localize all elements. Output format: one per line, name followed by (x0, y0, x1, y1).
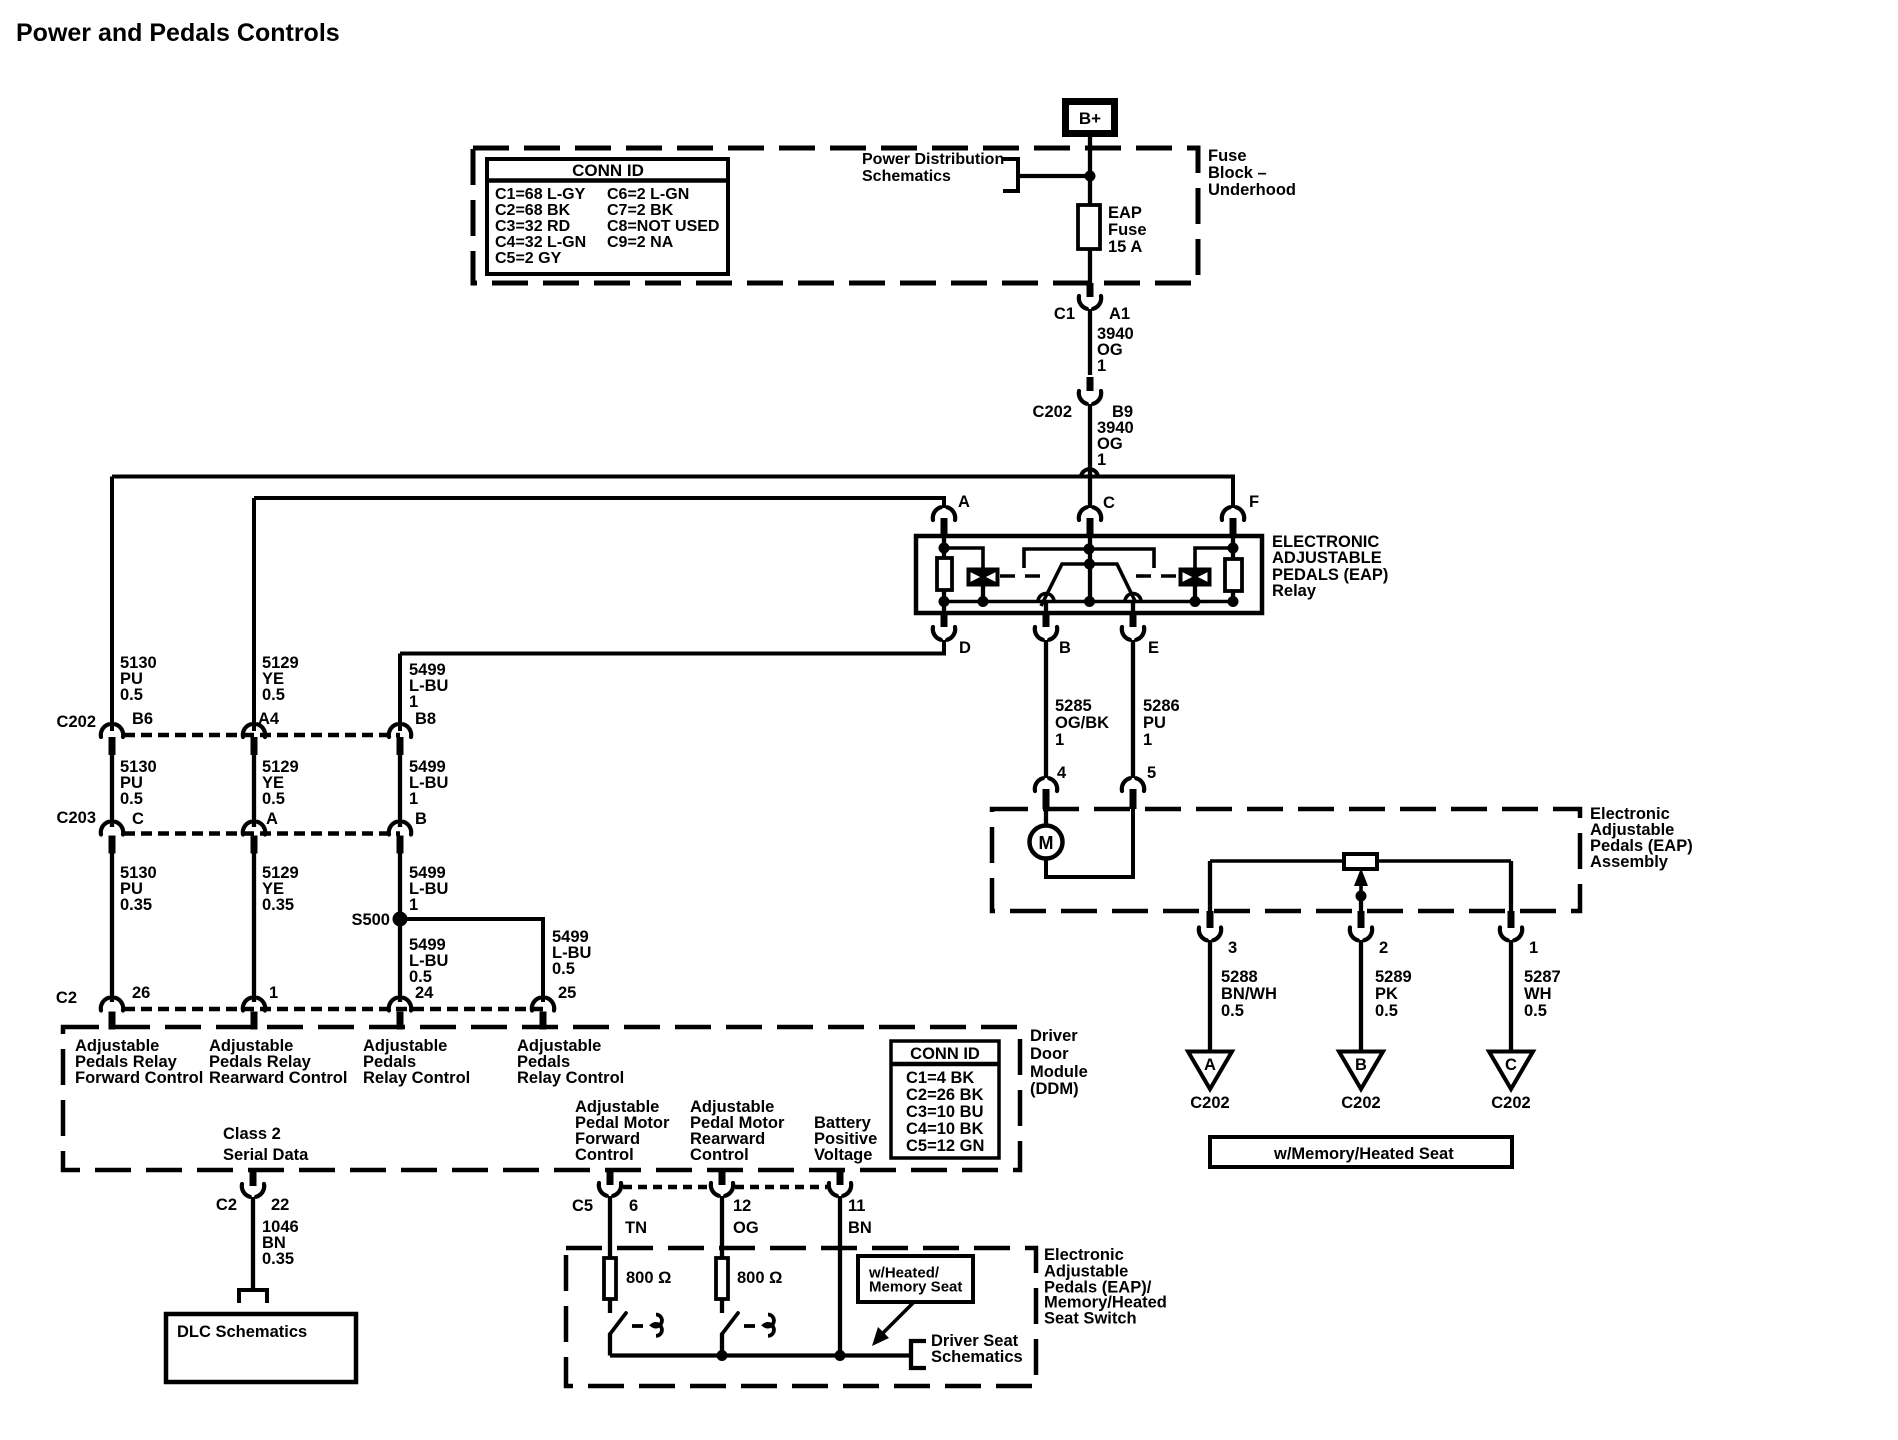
wire left coil to bottom rail (981, 586, 985, 601)
wire pin 6 to resistor (608, 1196, 612, 1259)
svg-text:12: 12 (733, 1197, 751, 1215)
svg-text:5499L-BU1: 5499L-BU1 (409, 864, 448, 914)
w/Memory/Heated Seat box (1210, 1137, 1512, 1167)
svg-text:Relay: Relay (1272, 582, 1317, 600)
wire resistor to switch (rwd) (720, 1299, 724, 1313)
connector C2 pin 25 (532, 998, 540, 1011)
svg-text:B6: B6 (132, 710, 153, 728)
svg-text:22: 22 (271, 1196, 289, 1214)
svg-text:C202: C202 (1341, 1094, 1380, 1112)
wire 5129 YE lower (252, 851, 256, 1002)
wire switch to bus (rwd) (720, 1333, 724, 1356)
svg-text:C: C (1103, 494, 1115, 512)
relay common bar (staple) (1024, 549, 1154, 568)
arrow w/heated to bus (880, 1302, 914, 1336)
switch contact forward (652, 1315, 662, 1336)
svg-text:Voltage: Voltage (814, 1146, 872, 1164)
connector relay pin C (1079, 507, 1087, 520)
node armature top (1084, 559, 1095, 570)
resistor relay left (937, 558, 952, 590)
svg-text:DLC Schematics: DLC Schematics (177, 1323, 307, 1341)
svg-text:CONN ID: CONN ID (910, 1045, 980, 1063)
node bus battery (835, 1350, 846, 1361)
svg-text:Relay Control: Relay Control (363, 1069, 470, 1087)
svg-text:B+: B+ (1079, 109, 1101, 128)
switch contact rearward (764, 1315, 774, 1336)
svg-text:5286PU1: 5286PU1 (1143, 697, 1180, 749)
svg-text:C1=68 L-GY: C1=68 L-GY (495, 186, 586, 203)
svg-text:w/Memory/Heated Seat: w/Memory/Heated Seat (1273, 1145, 1454, 1163)
wire right coil to bottom rail (1193, 586, 1197, 601)
wire 5287 WH 0.5 (1509, 940, 1513, 1052)
svg-text:C202: C202 (1491, 1094, 1530, 1112)
node A-coil junction (939, 543, 950, 554)
relay bottom rail (944, 600, 1233, 604)
svg-text:B: B (1355, 1056, 1367, 1074)
svg-text:C4=10 BK: C4=10 BK (906, 1120, 984, 1138)
svg-text:A: A (266, 810, 278, 828)
svg-text:C8=NOT USED: C8=NOT USED (607, 218, 719, 235)
wire 5499 L-BU vertical upper (398, 654, 402, 732)
svg-text:1046BN0.35: 1046BN0.35 (262, 1218, 299, 1268)
EAP relay box (916, 536, 1262, 613)
switch link dash rearward (744, 1324, 755, 1328)
wire pin B drop (1044, 601, 1048, 613)
wire 1046 BN 0.35 (251, 1197, 255, 1288)
svg-text:5499L-BU1: 5499L-BU1 (409, 661, 448, 711)
connector assembly pin 5 (1122, 778, 1130, 791)
svg-text:Block –: Block – (1208, 164, 1267, 182)
wire A node to left coil (944, 548, 983, 568)
svg-text:3940OG1: 3940OG1 (1097, 325, 1134, 375)
svg-text:(DDM): (DDM) (1030, 1080, 1079, 1098)
svg-text:E: E (1148, 639, 1159, 657)
driver door module dashed box (63, 1027, 1020, 1170)
wire motor to pin 5 (1046, 807, 1133, 877)
wire 5129 YE vertical upper (252, 498, 256, 731)
wire pin D drop (942, 601, 946, 613)
wire 5499 L-BU lower (398, 851, 402, 1002)
wire 5129 YE mid (252, 753, 256, 827)
battery positive terminal B+ (1066, 102, 1115, 134)
svg-text:C202: C202 (57, 713, 96, 731)
svg-text:C5=2 GY: C5=2 GY (495, 250, 562, 267)
svg-text:C2: C2 (56, 989, 77, 1007)
svg-text:C202: C202 (1033, 403, 1072, 421)
connector C5 dotted line (623, 1185, 709, 1189)
connector C202 pin B8 (389, 724, 397, 737)
connector C1 pin A1 (1087, 283, 1094, 297)
svg-text:Driver: Driver (1030, 1027, 1078, 1045)
svg-text:Schematics: Schematics (931, 1348, 1023, 1366)
wire 3940 OG 1 (C1 to C202) (1088, 309, 1092, 375)
node armature bottom (1084, 596, 1095, 607)
relay coil right K2 (1179, 568, 1212, 587)
svg-text:Power Distribution: Power Distribution (862, 151, 1004, 168)
node right coil bottom (1190, 596, 1201, 607)
wire fuse to C1 (1088, 249, 1092, 284)
wiper arrow (1359, 880, 1363, 897)
wire pin C through armature (1088, 536, 1092, 601)
wire wiper leg (1359, 896, 1363, 913)
CONN ID table (fuse block) (487, 159, 728, 274)
wire pin A into relay (942, 536, 946, 558)
svg-text:Door: Door (1030, 1045, 1069, 1063)
svg-text:11: 11 (848, 1197, 865, 1215)
svg-text:S500: S500 (351, 911, 390, 929)
svg-text:D: D (959, 639, 971, 657)
node right resistor bottom (1228, 596, 1239, 607)
wire left resistor to bottom rail (942, 590, 946, 601)
EAP switch dashed box (566, 1248, 1036, 1386)
switch blade forward (610, 1313, 626, 1334)
wire S500 branch to pin 25 (400, 919, 543, 1002)
svg-text:800 Ω: 800 Ω (626, 1269, 671, 1287)
wire right resistor to bottom rail (1231, 591, 1235, 601)
position sensor track line (1210, 859, 1511, 863)
connector assembly pin 2 (1358, 911, 1365, 928)
splice S500 (393, 912, 408, 927)
connector assembly pin 4 (1035, 778, 1043, 791)
svg-text:5285OG/BK1: 5285OG/BK1 (1055, 697, 1109, 749)
svg-text:5130PU0.5: 5130PU0.5 (120, 758, 157, 808)
node C common (1084, 544, 1095, 555)
connector C202 pin B9 (1087, 377, 1094, 391)
svg-text:Assembly: Assembly (1590, 853, 1669, 871)
wire 3940 OG 1 (C202 to relay C) (1088, 404, 1092, 508)
svg-text:M: M (1039, 833, 1054, 853)
svg-text:CONN ID: CONN ID (572, 161, 644, 180)
svg-text:3940OG1: 3940OG1 (1097, 419, 1134, 469)
svg-text:Power and Pedals Controls: Power and Pedals Controls (16, 19, 340, 47)
wire pin F into relay (1231, 536, 1235, 559)
svg-text:A: A (958, 493, 970, 511)
wire switch to bus (fwd) (608, 1333, 612, 1356)
connector C2 pin 22 (250, 1171, 257, 1186)
connector C2 dashed line (124, 1007, 543, 1011)
svg-text:A1: A1 (1109, 305, 1130, 323)
wire power distribution to B+ feed (1018, 174, 1090, 178)
wire feed run to relay F (hops over C) (112, 477, 1233, 509)
svg-text:Serial Data: Serial Data (223, 1146, 309, 1164)
DLC Schematics box (166, 1314, 356, 1382)
svg-text:15 A: 15 A (1108, 238, 1142, 256)
svg-text:B: B (415, 810, 427, 828)
svg-text:Fuse: Fuse (1108, 221, 1147, 239)
svg-text:C2: C2 (216, 1196, 237, 1214)
off-page bracket to DLC (239, 1290, 267, 1303)
resistor relay right (1225, 559, 1242, 591)
position sensor element (1344, 854, 1377, 869)
pivot arc pin E (1125, 594, 1141, 602)
svg-text:Module: Module (1030, 1063, 1088, 1081)
svg-text:C6=2 L-GN: C6=2 L-GN (607, 186, 689, 203)
wire pin 11 to bus (838, 1196, 842, 1356)
connector relay pin F (1222, 507, 1230, 520)
node bus rearward (717, 1350, 728, 1361)
svg-text:ADJUSTABLE: ADJUSTABLE (1272, 549, 1382, 567)
svg-text:Relay Control: Relay Control (517, 1069, 624, 1087)
connector C5 pin 11 (837, 1170, 844, 1185)
svg-text:3: 3 (1228, 939, 1237, 957)
svg-text:C3=10 BU: C3=10 BU (906, 1103, 984, 1121)
svg-text:Control: Control (690, 1146, 749, 1164)
svg-text:5287WH0.5: 5287WH0.5 (1524, 968, 1561, 1020)
svg-text:4: 4 (1057, 764, 1067, 782)
connector C202 pin A4 (243, 724, 251, 737)
connector C2 pin 1 (243, 998, 251, 1011)
svg-text:C2=26 BK: C2=26 BK (906, 1086, 984, 1104)
svg-text:B: B (1059, 639, 1071, 657)
wire 5285 OG/BK 1 (1044, 640, 1048, 778)
svg-text:1: 1 (1529, 939, 1538, 957)
connector relay pin B (1043, 611, 1050, 627)
connector assembly pin 3 (1207, 911, 1214, 928)
svg-text:C7=2 BK: C7=2 BK (607, 202, 674, 219)
svg-text:C5: C5 (572, 1197, 593, 1215)
wire 5288 BN/WH 0.5 (1208, 940, 1212, 1052)
svg-text:5130PU0.5: 5130PU0.5 (120, 654, 157, 704)
svg-text:C2=68 BK: C2=68 BK (495, 202, 571, 219)
svg-text:2: 2 (1379, 939, 1388, 957)
svg-text:Class 2: Class 2 (223, 1125, 281, 1143)
svg-text:Memory Seat: Memory Seat (869, 1279, 962, 1296)
svg-text:Rearward Control: Rearward Control (209, 1069, 347, 1087)
connector relay pin E (1130, 611, 1137, 627)
svg-text:5129YE0.35: 5129YE0.35 (262, 864, 299, 914)
svg-text:Control: Control (575, 1146, 634, 1164)
svg-text:OG: OG (733, 1219, 759, 1237)
svg-text:BN: BN (848, 1219, 872, 1237)
svg-text:B8: B8 (415, 710, 436, 728)
fuse EAP 15A (1078, 205, 1100, 249)
node left coil bottom (978, 596, 989, 607)
svg-text:5499L-BU0.5: 5499L-BU0.5 (409, 936, 448, 986)
connector C203 pin C (101, 822, 109, 835)
pivot arc pin B (1038, 594, 1054, 602)
CONN ID table (DDM) (891, 1041, 999, 1158)
connector assembly pin 1 (1508, 911, 1515, 928)
svg-text:5499L-BU0.5: 5499L-BU0.5 (552, 928, 591, 978)
switch blade rearward (722, 1313, 738, 1334)
svg-text:C203: C203 (57, 809, 96, 827)
dashed actuator link right (1136, 574, 1178, 578)
wire 5289 PK 0.5 (1359, 940, 1363, 1052)
svg-text:Forward Control: Forward Control (75, 1069, 203, 1087)
svg-text:C1=4 BK: C1=4 BK (906, 1069, 974, 1087)
wire B+ to fuse block (1088, 137, 1092, 150)
svg-text:Seat Switch: Seat Switch (1044, 1310, 1137, 1328)
svg-text:TN: TN (625, 1219, 647, 1237)
svg-text:C: C (132, 810, 144, 828)
node junction B+ feed (1085, 171, 1096, 182)
svg-text:A: A (1204, 1056, 1216, 1074)
wire pin 4 to motor (1044, 807, 1048, 826)
svg-text:Schematics: Schematics (862, 168, 951, 185)
svg-text:A4: A4 (258, 710, 280, 728)
node left resistor bottom (939, 596, 950, 607)
switch link dash forward (632, 1324, 643, 1328)
off-page bracket power distribution (1003, 159, 1018, 191)
svg-text:5288BN/WH0.5: 5288BN/WH0.5 (1221, 968, 1277, 1020)
wire sensor left leg (1208, 861, 1212, 913)
wire relay D to 5499 run (400, 640, 944, 654)
connector C203 pin B (389, 822, 397, 835)
wire sensor right leg (1509, 861, 1513, 913)
svg-text:800 Ω: 800 Ω (737, 1269, 782, 1287)
wire 5499 L-BU mid (398, 753, 402, 827)
dashed actuator link left (1000, 574, 1042, 578)
connector relay pin A (933, 507, 941, 520)
EAP assembly dashed box (992, 809, 1580, 911)
connector C203 dashed line (124, 831, 400, 835)
svg-text:5499L-BU1: 5499L-BU1 (409, 758, 448, 808)
svg-text:C3=32 RD: C3=32 RD (495, 218, 570, 235)
connector C202 dashed line (124, 733, 400, 737)
wire pin 12 to resistor (720, 1196, 724, 1259)
svg-text:5129YE0.5: 5129YE0.5 (262, 654, 299, 704)
connector relay pin D (941, 611, 948, 627)
resistor 800 ohm forward (604, 1258, 616, 1299)
off-page triangle A (1188, 1052, 1232, 1090)
svg-text:C9=2 NA: C9=2 NA (607, 234, 674, 251)
node F junction (1228, 543, 1239, 554)
svg-text:5: 5 (1147, 764, 1156, 782)
svg-text:5130PU0.35: 5130PU0.35 (120, 864, 157, 914)
svg-text:C5=12 GN: C5=12 GN (906, 1137, 984, 1155)
wire 5130 PU vertical upper (110, 477, 114, 732)
fuse block underhood dashed box (473, 148, 1198, 283)
svg-text:C4=32 L-GN: C4=32 L-GN (495, 234, 586, 251)
svg-text:F: F (1249, 493, 1259, 511)
wire 5130 PU lower (110, 851, 114, 1002)
connector C2 pin 24 (389, 998, 397, 1011)
wire 5286 PU 1 (1131, 640, 1135, 778)
svg-text:26: 26 (132, 984, 150, 1002)
resistor 800 ohm rearward (716, 1258, 728, 1299)
wire resistor to switch (fwd) (608, 1299, 612, 1313)
svg-text:C: C (1505, 1056, 1517, 1074)
svg-text:Fuse: Fuse (1208, 147, 1247, 165)
armature contact trapezoid (1041, 564, 1136, 606)
svg-text:5289PK0.5: 5289PK0.5 (1375, 968, 1412, 1020)
connector C203 pin A (243, 822, 251, 835)
off-page bracket driver seat (911, 1341, 926, 1368)
node wiper (1356, 891, 1367, 902)
off-page triangle B (1339, 1052, 1383, 1090)
wire F node to right coil (1195, 548, 1233, 568)
svg-text:C202: C202 (1190, 1094, 1229, 1112)
svg-text:24: 24 (415, 984, 434, 1002)
relay coil left K1 (967, 568, 1000, 587)
connector C2 pin 26 (101, 998, 109, 1011)
svg-text:EAP: EAP (1108, 204, 1142, 222)
switch common bus (610, 1353, 911, 1357)
wire 5130 PU mid (110, 753, 114, 827)
wire B+ feed to fuse (1088, 150, 1092, 205)
svg-text:Electronic: Electronic (1044, 1246, 1124, 1264)
off-page triangle C (1489, 1052, 1533, 1090)
svg-text:C1: C1 (1054, 305, 1075, 323)
motor M (1030, 826, 1063, 859)
svg-text:1: 1 (269, 984, 278, 1002)
connector C5 pin 6 (607, 1170, 614, 1185)
wire pin E drop (1131, 601, 1135, 613)
connector C5 pin 12 (719, 1170, 726, 1185)
wire feed run to relay A (254, 498, 944, 508)
svg-text:5129YE0.5: 5129YE0.5 (262, 758, 299, 808)
w/Heated/Memory Seat box (858, 1256, 973, 1302)
svg-text:Underhood: Underhood (1208, 181, 1296, 199)
connector C202 pin B6 (101, 724, 109, 737)
svg-text:25: 25 (558, 984, 576, 1002)
svg-text:6: 6 (629, 1197, 638, 1215)
